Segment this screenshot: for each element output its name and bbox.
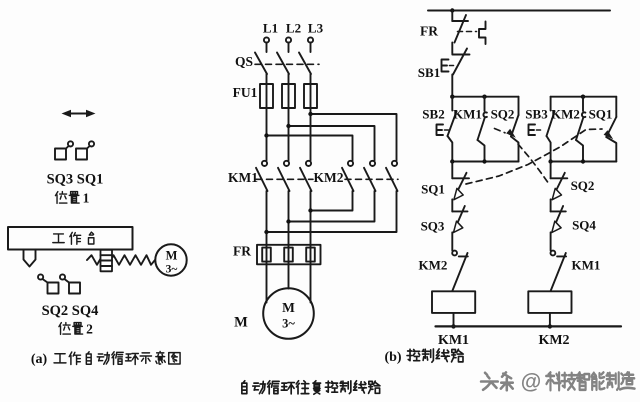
wire SB1 to node [451, 75, 453, 97]
label 位置1 [55, 191, 89, 206]
KM2 pole 3 output to phase 1 node [264, 191, 396, 234]
svg-text:L2: L2 [286, 21, 301, 36]
svg-text:SQ3 SQ1: SQ3 SQ1 [47, 172, 104, 188]
svg-text:SQ2: SQ2 [571, 178, 595, 193]
svg-text:SB3: SB3 [525, 107, 548, 122]
svg-text:KM2: KM2 [551, 107, 580, 122]
fuse FU1 pole 3 [304, 84, 317, 108]
label KM2 NC [419, 258, 448, 273]
thermal relay FR label [233, 244, 251, 259]
SQ1 mechanical linkage dashed line [466, 129, 613, 184]
fuse FU1 pole 2 [282, 84, 295, 108]
main contact KM1 pole 1 [256, 161, 268, 191]
branch wire L3 to KM2 pole 3 [308, 112, 396, 161]
KM2 aux NO contact [576, 97, 585, 162]
supply terminal L3 [308, 37, 313, 52]
lead screw zigzag [87, 255, 155, 265]
fuse FU1 pole 1 [260, 84, 273, 108]
svg-text:SQ2: SQ2 [491, 107, 515, 122]
QS blade pole 1 [255, 53, 267, 85]
svg-text:QS: QS [235, 54, 253, 69]
svg-text:SB2: SB2 [422, 107, 444, 122]
svg-text:KM1: KM1 [572, 258, 601, 273]
svg-text:SQ1: SQ1 [421, 182, 445, 197]
svg-text:3~: 3~ [166, 264, 178, 276]
label SB2 [422, 107, 444, 122]
svg-text:KM2: KM2 [314, 170, 344, 185]
KM2 pole 1 output to phase 3 node [308, 191, 352, 213]
control supply rail [428, 8, 610, 12]
svg-text:(a): (a) [31, 352, 48, 367]
label SQ1 (NC) [421, 182, 445, 197]
KM1 NC interlock contact [551, 251, 567, 291]
fuse FU1 label [233, 85, 258, 100]
svg-text:KM1: KM1 [453, 107, 482, 122]
QS linkage dashed line [255, 63, 319, 65]
FR NC contact [452, 11, 485, 45]
caption (a) 工作自动循环示意图 [31, 352, 180, 368]
wire coil KM2 to rail [548, 313, 552, 329]
label SQ2 (NO) [491, 107, 515, 122]
phase wire L1 drop [266, 108, 268, 161]
SQ2 NO contact [511, 97, 519, 162]
stop button SB1 (NC) [442, 49, 470, 75]
label SQ2 (NC) [571, 178, 595, 193]
svg-text:SB1: SB1 [418, 65, 440, 80]
SQ4 NC limit contact [551, 206, 566, 233]
SQ1 NC limit contact [452, 162, 469, 200]
main contact KM1 pole 2 [278, 161, 290, 191]
KM1 pole 1 output wire to motor U [266, 191, 268, 303]
KM1 aux NO contact [478, 97, 487, 162]
supply terminal L2 [286, 37, 291, 52]
svg-text:FR: FR [233, 244, 251, 259]
control bottom rail [436, 325, 622, 327]
label SQ2 SQ4 [42, 303, 99, 319]
KM2 NC interlock contact [452, 251, 468, 291]
limit switch SQ4 symbol [60, 274, 80, 293]
label KM1 aux [453, 107, 482, 122]
KM1 pole 2 output wire to motor V [288, 191, 290, 289]
SQ2 NC limit contact [551, 162, 568, 200]
svg-text:SQ2 SQ4: SQ2 SQ4 [42, 303, 99, 319]
label KM2 coil [538, 333, 569, 348]
QS blade pole 3 [299, 53, 311, 85]
motion double arrow [62, 110, 96, 118]
svg-text:FU1: FU1 [233, 85, 258, 100]
wire SQ2-SQ4 [550, 199, 552, 211]
phase wire L2 drop [288, 108, 290, 161]
group2 bottom bar [548, 159, 616, 163]
wire coil KM1 to rail [451, 313, 455, 329]
svg-text:KM2: KM2 [538, 333, 569, 348]
thermal relay FR heater box [257, 245, 321, 264]
svg-text:KM2: KM2 [419, 258, 448, 273]
group2 top bar [551, 95, 617, 99]
svg-text:SQ4: SQ4 [572, 218, 596, 233]
branch wire L2 to KM2 pole 2 [286, 124, 374, 161]
svg-text:SQ3: SQ3 [421, 219, 445, 234]
label SQ1 (NO) [589, 107, 613, 122]
svg-text:(b): (b) [384, 350, 401, 365]
svg-text:2: 2 [86, 322, 93, 337]
wire SQ3-KM2 [451, 232, 453, 250]
main contact KM2 pole 2 [364, 161, 376, 191]
svg-text:KM1: KM1 [438, 333, 469, 348]
contactor KM2 label [314, 170, 344, 185]
wire FR to SB1 [451, 43, 453, 54]
limit switch SQ3 symbol [55, 141, 73, 159]
start button SB3 (NO) [529, 97, 555, 162]
KM1 linkage dashed line [256, 178, 313, 180]
wire SQ1-SQ3 [451, 199, 453, 211]
label SQ3 SQ1 [47, 172, 104, 188]
KM2 pole 2 output to phase 2 node [286, 191, 374, 224]
disconnect switch QS label [235, 54, 253, 69]
pawl under table [24, 250, 36, 267]
label SQ3 [421, 219, 445, 234]
watermark 头条 @科技智能制造 [481, 371, 636, 396]
caption 自动循环往复控制线路 [242, 381, 380, 394]
motor M label [234, 315, 248, 331]
label L2 [286, 21, 301, 36]
label SB3 [525, 107, 548, 122]
label SQ4 [572, 218, 596, 233]
limit switch SQ1 symbol [76, 141, 94, 159]
screw nut on table [101, 250, 113, 271]
svg-text:L3: L3 [308, 21, 324, 36]
supply terminal L1 [264, 37, 269, 52]
limit switch SQ2 symbol [38, 274, 59, 293]
SQ2 mechanical linkage dashed line [495, 129, 549, 183]
caption (b) 控制线路 [384, 349, 463, 365]
worktable box 工作台 [8, 227, 133, 250]
SQ3 NC limit contact [452, 206, 467, 233]
label 位置2 [59, 322, 93, 337]
SQ1 NO contact [606, 97, 616, 162]
QS blade pole 2 [277, 53, 289, 85]
svg-text:1: 1 [83, 191, 90, 206]
contactor KM1 label [228, 170, 258, 185]
main contact KM2 pole 3 [386, 161, 398, 191]
label SB1 [418, 65, 440, 80]
branch wire L1 to KM2 pole 1 [264, 133, 352, 160]
label L1 [263, 21, 278, 36]
main contact KM1 pole 3 [300, 161, 312, 191]
motor M 3~ (main circuit) [263, 288, 314, 339]
KM2 linkage dashed line [345, 178, 398, 180]
svg-text:M: M [234, 315, 248, 331]
FR label (control) [420, 24, 438, 39]
svg-text:M: M [166, 249, 178, 263]
svg-text:FR: FR [420, 24, 438, 39]
label L3 [308, 21, 324, 36]
label KM2 aux [551, 107, 580, 122]
coil KM1 [432, 291, 475, 313]
svg-text:L1: L1 [263, 21, 278, 36]
svg-text:KM1: KM1 [228, 170, 258, 185]
svg-text:@: @ [521, 371, 541, 394]
main contact KM2 pole 1 [342, 161, 354, 191]
coil KM2 [528, 291, 571, 313]
phase wire L3 drop [310, 108, 312, 161]
group1 bottom bar [450, 159, 518, 163]
wire SQ4-KM1 [550, 232, 552, 250]
motor M 3~ (panel a) [155, 244, 186, 275]
label KM1 NC [572, 258, 601, 273]
label KM1 coil [438, 333, 469, 348]
group1 top bar [450, 95, 518, 99]
KM1 pole 3 output wire to motor W [310, 191, 312, 303]
svg-text:SQ1: SQ1 [589, 107, 613, 122]
svg-text:3~: 3~ [282, 317, 295, 331]
svg-text:M: M [282, 300, 295, 315]
start button SB2 (NO) [437, 97, 457, 162]
